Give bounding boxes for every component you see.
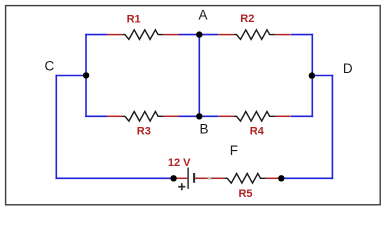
resistor R3 xyxy=(107,112,179,122)
wire middle rail left xyxy=(85,115,107,117)
battery 12 V xyxy=(174,168,210,191)
svg-text:R1: R1 xyxy=(127,13,141,25)
resistor R1 xyxy=(107,30,179,40)
node C junction xyxy=(83,72,89,78)
resistor R2 xyxy=(219,30,291,40)
junction battery-R5 xyxy=(208,177,211,180)
wire right inner leg xyxy=(311,34,313,117)
svg-text:R5: R5 xyxy=(238,188,252,200)
wire D stub xyxy=(312,75,333,77)
svg-text:A: A xyxy=(198,8,207,23)
wire top rail middle xyxy=(178,34,218,36)
wire right outer leg xyxy=(331,75,333,179)
svg-text:12 V: 12 V xyxy=(168,157,191,169)
svg-text:C: C xyxy=(45,59,55,74)
resistor R5 xyxy=(209,174,281,184)
wire bottom rail left xyxy=(56,177,174,179)
wire top rail left xyxy=(85,34,107,36)
resistor R4 xyxy=(219,112,291,122)
node A junction xyxy=(196,31,202,37)
svg-text:D: D xyxy=(343,61,353,76)
wire middle rail middle xyxy=(178,115,218,117)
node B junction xyxy=(196,113,202,119)
node D junction xyxy=(309,72,315,78)
wire A to B xyxy=(198,35,200,117)
wire left outer leg xyxy=(55,75,57,179)
svg-text:R4: R4 xyxy=(250,125,265,137)
wire left inner leg xyxy=(85,34,87,117)
svg-text:B: B xyxy=(199,121,208,136)
junction battery left terminal xyxy=(170,175,176,181)
svg-text:R2: R2 xyxy=(240,13,254,25)
svg-text:F: F xyxy=(230,143,238,158)
wire top rail right xyxy=(290,34,313,36)
wire middle rail right xyxy=(290,115,313,117)
wire C stub xyxy=(56,75,87,77)
svg-text:R3: R3 xyxy=(137,125,151,137)
wire bottom rail right xyxy=(281,177,333,179)
junction R5 right terminal xyxy=(278,175,284,181)
